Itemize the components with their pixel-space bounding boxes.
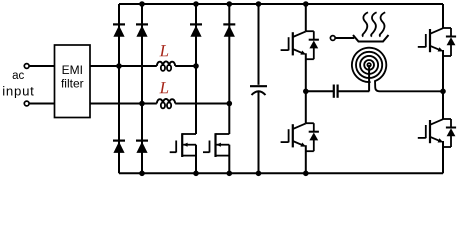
svg-text:input: input [2,84,34,99]
svg-text:EMI: EMI [62,63,83,77]
svg-text:filter: filter [61,77,84,91]
svg-text:ac: ac [12,70,24,82]
